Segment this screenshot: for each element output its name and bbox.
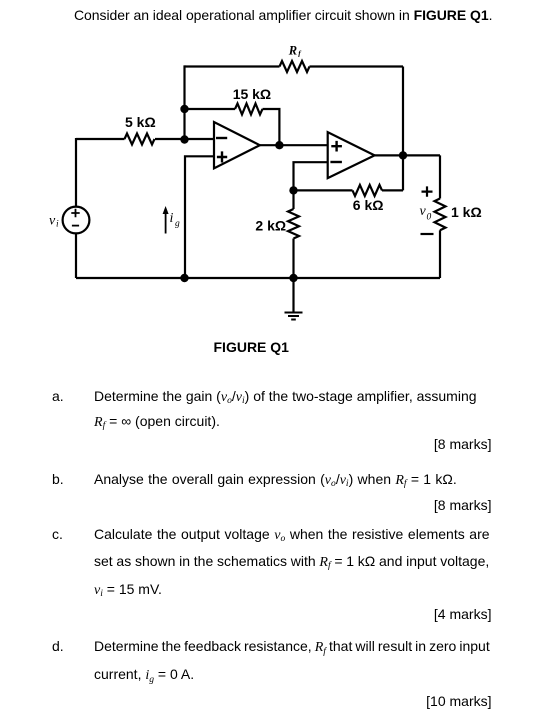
svg-text:f: f — [298, 48, 302, 57]
svg-text:R: R — [288, 43, 297, 57]
svg-text:0: 0 — [427, 213, 432, 223]
svg-text:6 kΩ: 6 kΩ — [353, 197, 384, 213]
svg-text:g: g — [175, 219, 180, 229]
svg-text:i: i — [56, 220, 59, 230]
svg-text:15 kΩ: 15 kΩ — [233, 86, 271, 102]
svg-text:i: i — [170, 211, 174, 226]
svg-text:v: v — [49, 214, 56, 229]
svg-text:v: v — [420, 204, 427, 219]
svg-text:2 kΩ: 2 kΩ — [255, 217, 286, 233]
svg-text:5 kΩ: 5 kΩ — [125, 114, 156, 130]
svg-text:1 kΩ: 1 kΩ — [451, 204, 482, 220]
